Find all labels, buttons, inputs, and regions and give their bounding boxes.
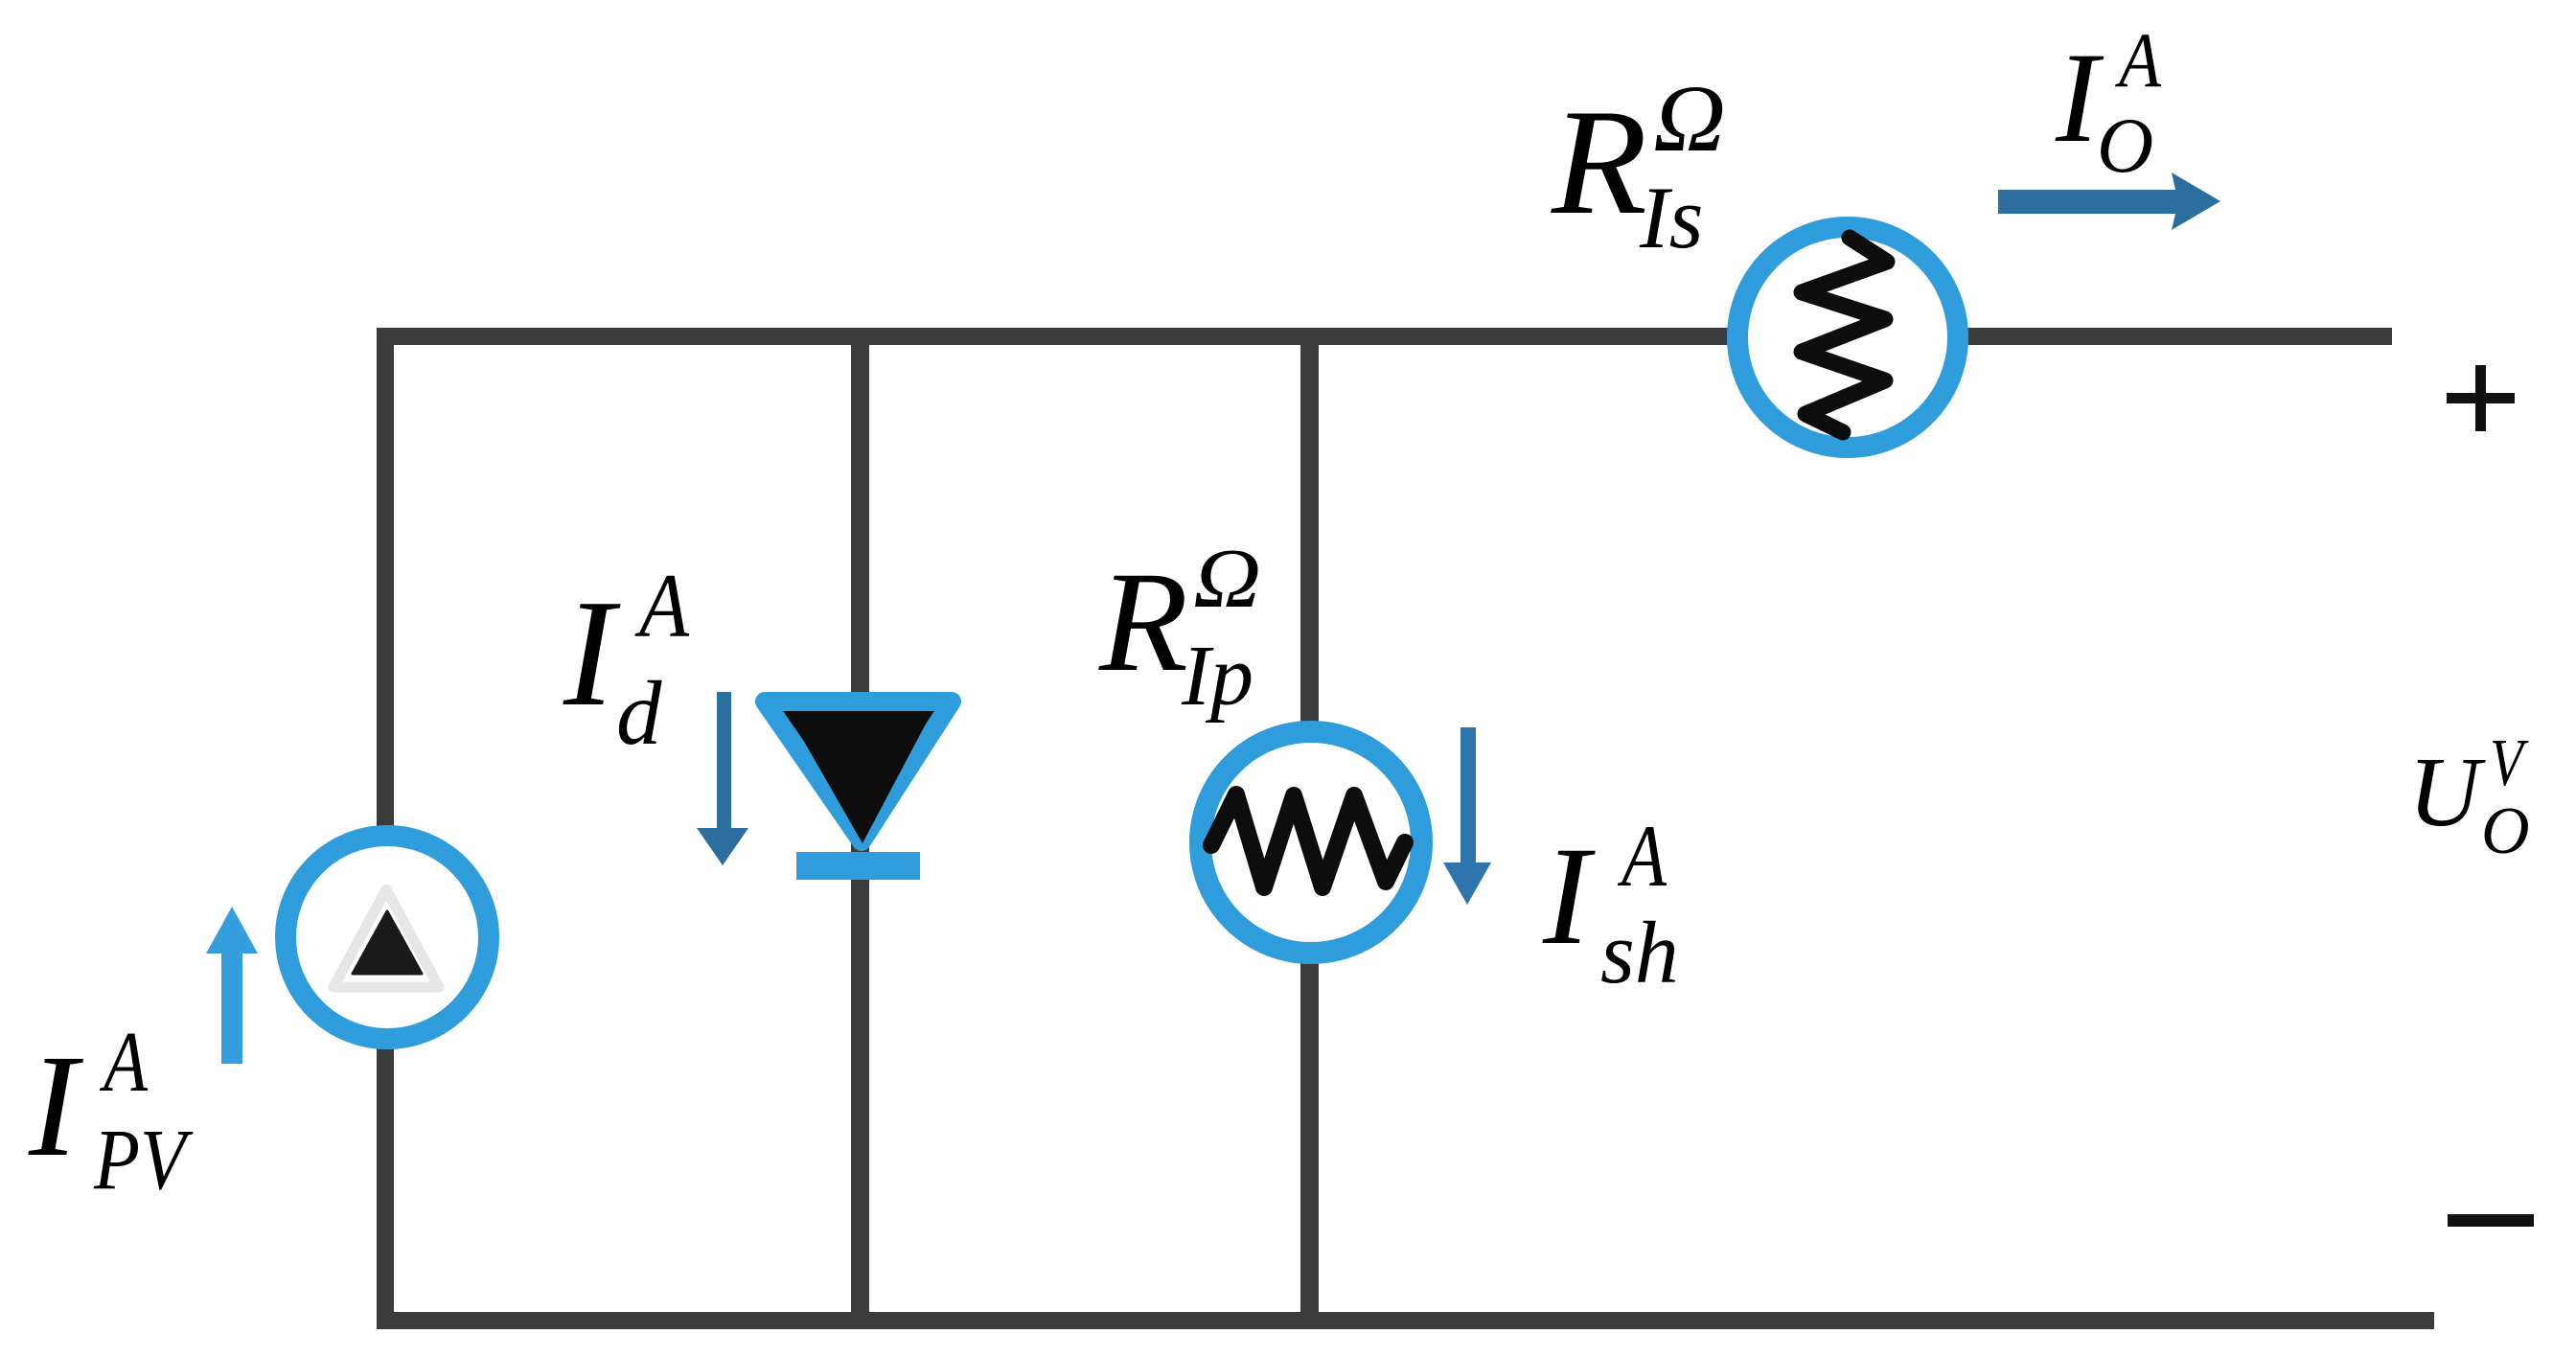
label I_sh — [1542, 807, 1679, 1001]
arrow I_PV — [206, 907, 258, 1064]
svg-text:sh: sh — [1600, 904, 1679, 1001]
svg-text:I: I — [28, 1025, 83, 1187]
label R_Is — [1551, 65, 1726, 266]
svg-text:A: A — [2115, 16, 2162, 103]
resistor R_Is series — [1737, 227, 1958, 448]
arrow I_sh — [1443, 727, 1491, 905]
wire shunt branch — [1300, 328, 1319, 1329]
svg-text:O: O — [2481, 794, 2530, 868]
svg-text:U: U — [2408, 737, 2486, 847]
label U_O — [2408, 726, 2530, 868]
wire bottom bus — [377, 1312, 2434, 1329]
svg-text:I: I — [1542, 817, 1596, 974]
svg-text:A: A — [100, 1015, 149, 1110]
svg-text:O: O — [2097, 102, 2153, 189]
svg-text:I: I — [563, 567, 621, 738]
svg-text:Ip: Ip — [1181, 629, 1253, 724]
resistor R_Ip shunt — [1201, 732, 1422, 954]
label I_d — [563, 555, 690, 764]
svg-text:Is: Is — [1639, 169, 1703, 266]
arrow I_O — [1998, 172, 2220, 230]
label I_PV — [28, 1015, 194, 1207]
wire top bus — [377, 328, 2392, 345]
label I_O — [2055, 16, 2162, 189]
svg-text:V: V — [2490, 726, 2529, 800]
svg-text:Ω: Ω — [1653, 65, 1726, 172]
current source I_PV — [286, 836, 489, 1039]
svg-text:A: A — [1617, 807, 1667, 905]
svg-text:Ω: Ω — [1193, 533, 1261, 626]
svg-text:PV: PV — [93, 1113, 194, 1207]
svg-text:A: A — [634, 555, 690, 656]
diode D — [765, 701, 952, 880]
arrow I_d — [697, 692, 748, 865]
plus terminal — [2447, 365, 2515, 431]
wire left branch — [377, 328, 394, 1329]
minus terminal — [2448, 1214, 2534, 1227]
svg-text:R: R — [1098, 542, 1188, 701]
label R_Ip — [1098, 533, 1261, 724]
svg-text:d: d — [616, 662, 662, 764]
svg-text:R: R — [1551, 79, 1647, 246]
wire diode branch — [851, 328, 869, 1329]
